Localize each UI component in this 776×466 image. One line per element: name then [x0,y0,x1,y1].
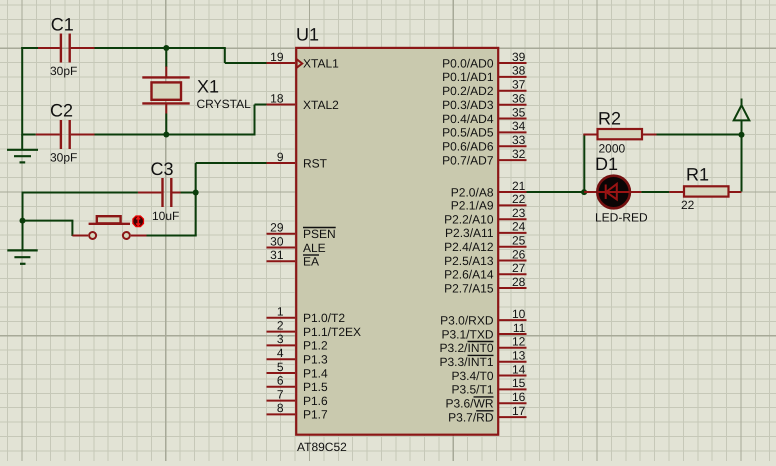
pin 8 P1.7 (left) [267,401,329,422]
svg-text:16: 16 [512,390,526,404]
pin 13 P3.3/INT1 (right) [439,349,526,370]
pin 14 P3.4/T0 (right) [451,362,526,383]
label C2 [50,101,73,121]
pin 12 P3.2/INT0 (right) [439,335,526,356]
label D1 [595,154,618,174]
svg-text:R1: R1 [686,165,709,185]
svg-text:AT89C52: AT89C52 [297,440,347,454]
wire C3 right to RST pin 9 [181,163,268,193]
svg-text:LED-RED: LED-RED [595,211,648,225]
pin 33 P0.6/AD6 (right) [442,133,526,154]
svg-text:P1.0/T2: P1.0/T2 [303,311,345,325]
svg-text:15: 15 [512,376,526,390]
node junction C1/crystal top [163,45,169,51]
capacitor C3 [138,178,181,207]
pin 5 P1.4 (left) [267,360,329,381]
value 30pF (C2) [50,151,77,165]
svg-text:D1: D1 [595,154,618,174]
wire P2.0 pin 21 to LED junction [527,191,585,193]
wire crystal bottom branch [165,114,167,136]
label C3 [151,159,174,179]
pin 9 RST (left) [267,150,328,171]
wire button right to junction [147,193,197,236]
pin 7 P1.6 (left) [267,387,329,408]
resistor R2 [583,129,656,139]
svg-text:P1.1/T2EX: P1.1/T2EX [303,325,361,339]
svg-text:P3.5/T1: P3.5/T1 [451,383,493,397]
svg-text:30: 30 [270,234,284,248]
node junction R2/power/R1 [739,132,745,138]
pin 16 P3.6/WR (right) [445,390,526,411]
svg-text:32: 32 [512,147,526,161]
capacitor C2 [22,120,94,149]
pin 3 P1.2 (left) [267,332,329,353]
svg-text:PSEN: PSEN [303,227,336,241]
LED D1 [584,176,641,209]
pin 28 P2.7/A15 (right) [444,275,526,296]
svg-text:11: 11 [513,321,526,335]
pin 24 P2.3/A11 (right) [445,220,526,241]
pin 23 P2.2/A10 (right) [444,206,526,227]
svg-text:21: 21 [512,179,526,193]
pin 29 PSEN (left) [267,221,336,242]
wire junction to button left [23,221,74,236]
wire C2 right to XTAL2 pin 18 [95,105,268,135]
wire D1 to R1 [641,191,669,193]
pin 19 clock arrow [297,59,303,68]
svg-text:C2: C2 [50,101,73,121]
svg-text:P2.1/A9: P2.1/A9 [451,199,494,213]
node junction pin21/D1/R2 [581,189,587,195]
svg-text:XTAL1: XTAL1 [303,56,339,70]
svg-text:P3.7/RD: P3.7/RD [448,410,494,424]
pin 35 P0.4/AD4 (right) [442,105,526,126]
svg-text:P3.6/WR: P3.6/WR [445,397,493,411]
wire net GND: left rail C1-left to C2-left [21,47,38,136]
pin 22 P2.1/A9 (right) [451,192,527,213]
pin 1 P1.0/T2 (left) [267,305,346,326]
svg-text:30pF: 30pF [50,64,77,78]
label R2 [598,109,621,129]
value 30pF (C1) [50,64,77,78]
node junction ground rail / button [20,218,26,224]
pin 25 P2.4/A12 (right) [444,234,526,255]
pin 27 P2.6/A14 (right) [444,261,526,282]
pin 26 P2.5/A13 (right) [444,247,526,268]
svg-text:U1: U1 [296,25,319,45]
label C1 [51,15,74,35]
pin 4 P1.3 (left) [267,346,329,367]
svg-text:30pF: 30pF [50,151,77,165]
svg-text:P2.3/A11: P2.3/A11 [445,226,494,240]
ground symbol GND2 [7,221,37,264]
svg-text:18: 18 [270,91,284,105]
svg-text:ALE: ALE [303,241,326,255]
pin 19 XTAL1 (left) [267,50,340,71]
value CRYSTAL [197,97,252,111]
svg-text:28: 28 [512,275,526,289]
crystal X1 [142,67,189,114]
node junction C3/button/RST [193,190,199,196]
svg-text:P0.4/AD4: P0.4/AD4 [442,112,494,126]
svg-text:P2.5/A13: P2.5/A13 [444,254,494,268]
svg-text:17: 17 [512,404,526,418]
svg-text:P2.4/A12: P2.4/A12 [444,240,494,254]
svg-text:P3.0/RXD: P3.0/RXD [440,313,494,327]
svg-text:26: 26 [512,247,526,261]
svg-text:P1.2: P1.2 [303,339,328,353]
svg-text:P3.4/T0: P3.4/T0 [451,369,493,383]
svg-text:P2.0/A8: P2.0/A8 [451,185,494,199]
svg-text:22: 22 [512,192,526,206]
value 22 [681,198,695,212]
pin 38 P0.1/AD1 (right) [442,64,526,85]
svg-text:5: 5 [277,360,284,374]
pin 21 P2.0/A8 (right) [451,179,527,200]
svg-text:38: 38 [512,64,526,78]
pin 30 ALE (left) [267,234,326,255]
svg-text:7: 7 [277,387,284,401]
svg-text:27: 27 [512,261,526,275]
svg-text:P0.1/AD1: P0.1/AD1 [442,70,494,84]
pin 2 P1.1/T2EX (left) [267,318,362,339]
svg-text:9: 9 [277,150,284,164]
value AT89C52 [297,440,347,454]
svg-text:6: 6 [277,374,284,388]
pin 34 P0.5/AD5 (right) [442,119,526,140]
svg-text:P3.1/TXD: P3.1/TXD [441,327,493,341]
wire R2 right to power rail [657,134,742,136]
svg-text:P3.2/INT0: P3.2/INT0 [439,341,493,355]
svg-text:12: 12 [512,335,526,349]
svg-text:P0.5/AD5: P0.5/AD5 [442,126,494,140]
svg-text:X1: X1 [197,77,219,97]
wire junction up to R2 [583,135,585,193]
svg-text:8: 8 [277,401,284,415]
value 10uF [152,209,179,223]
svg-text:P1.3: P1.3 [303,353,328,367]
chip U1 AT89C52 [296,48,498,435]
svg-text:C1: C1 [51,15,74,35]
node junction C2/crystal bottom [163,132,169,138]
wire crystal top branch [165,48,167,67]
wire C3 left to ground rail [23,192,138,222]
wire C1 right to XTAL1 pin 19 [95,48,268,63]
ground symbol GND1 [7,135,38,163]
pin 17 P3.7/RD (right) [448,404,526,425]
svg-text:P2.6/A14: P2.6/A14 [444,268,494,282]
svg-text:P3.3/INT1: P3.3/INT1 [439,355,493,369]
svg-text:R2: R2 [598,109,621,129]
svg-text:10uF: 10uF [152,209,179,223]
pin 39 P0.0/AD0 (right) [442,50,526,71]
value LED-RED [595,211,648,225]
pin 18 XTAL2 (left) [267,91,340,112]
pin 15 P3.5/T1 (right) [451,376,526,397]
resistor R1 [669,186,741,196]
pin 36 P0.3/AD3 (right) [442,92,526,113]
button actuator marker [132,215,144,227]
svg-text:P0.2/AD2: P0.2/AD2 [442,84,494,98]
value 2000 [599,142,626,156]
pin 31 EA (left) [267,248,320,269]
svg-text:P1.4: P1.4 [303,366,328,380]
svg-text:22: 22 [681,198,695,212]
svg-text:3: 3 [277,332,284,346]
capacitor C1 [38,34,95,63]
pin 11 P3.1/TXD (right) [441,321,526,342]
pin 37 P0.2/AD2 (right) [442,78,526,99]
label X1 [197,77,219,97]
svg-text:P1.5: P1.5 [303,380,328,394]
svg-text:C3: C3 [151,159,174,179]
svg-text:P0.3/AD3: P0.3/AD3 [442,98,494,112]
pin 32 P0.7/AD7 (right) [442,147,526,168]
svg-text:10: 10 [512,307,526,321]
label U1 [296,25,319,45]
svg-text:2: 2 [277,318,284,332]
svg-text:P1.6: P1.6 [303,394,328,408]
svg-text:36: 36 [512,92,526,106]
svg-text:4: 4 [277,346,284,360]
svg-text:19: 19 [270,50,284,64]
svg-text:P1.7: P1.7 [303,408,328,422]
svg-text:33: 33 [512,133,526,147]
push button (reset switch) [72,216,146,239]
svg-text:34: 34 [512,119,526,133]
power terminal (VCC arrow) [734,99,750,136]
svg-text:24: 24 [512,220,526,234]
wire R1 right up to power rail [741,135,743,192]
svg-text:25: 25 [512,234,526,248]
svg-text:P0.0/AD0: P0.0/AD0 [442,56,494,70]
svg-text:P0.7/AD7: P0.7/AD7 [442,153,494,167]
svg-text:RST: RST [303,156,328,170]
svg-text:13: 13 [512,349,526,363]
svg-text:P2.2/A10: P2.2/A10 [444,213,494,227]
svg-text:CRYSTAL: CRYSTAL [197,97,252,111]
svg-text:29: 29 [270,221,284,235]
svg-text:P2.7/A15: P2.7/A15 [444,281,494,295]
svg-text:P0.6/AD6: P0.6/AD6 [442,140,494,154]
svg-text:37: 37 [512,78,526,92]
svg-text:35: 35 [512,105,526,119]
svg-text:EA: EA [303,255,319,269]
svg-text:1: 1 [277,305,284,319]
pin 10 P3.0/RXD (right) [440,307,526,328]
svg-text:14: 14 [512,362,526,376]
svg-text:XTAL2: XTAL2 [303,98,339,112]
svg-text:31: 31 [270,248,284,262]
svg-text:23: 23 [512,206,526,220]
pin 6 P1.5 (left) [267,374,329,395]
svg-text:39: 39 [512,50,526,64]
label R1 [686,165,709,185]
